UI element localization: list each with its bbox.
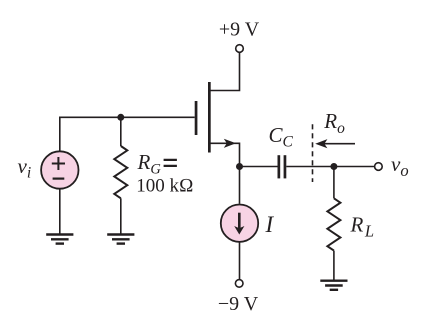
svg-text:Ro: Ro <box>323 109 345 137</box>
wire gate <box>60 117 195 151</box>
wire output to terminal <box>334 166 375 168</box>
svg-text:vi: vi <box>18 154 32 182</box>
ground (vi) <box>46 235 73 244</box>
source vi <box>41 151 78 188</box>
node output junction <box>330 163 337 170</box>
svg-text:−9 V: −9 V <box>218 293 259 315</box>
svg-text:CC: CC <box>269 123 294 151</box>
terminal +9V <box>236 45 244 53</box>
current source I <box>221 205 258 242</box>
svg-text:+9 V: +9 V <box>219 19 260 41</box>
wire output node to RL <box>333 167 335 199</box>
wire node to capacitor <box>240 166 278 168</box>
arrow Ro (pointing left) <box>320 143 355 145</box>
resistor RG <box>114 146 127 198</box>
ground (RG) <box>107 235 134 244</box>
wire RG top <box>120 117 122 146</box>
svg-text:100 kΩ: 100 kΩ <box>136 175 193 196</box>
wire drain to +9V <box>210 52 240 90</box>
current source arrow <box>238 213 241 229</box>
ground (RL) <box>320 281 347 290</box>
svg-text:RL: RL <box>350 213 375 241</box>
capacitor CC plates <box>278 155 281 178</box>
terminal vo <box>375 163 383 171</box>
wire current source to -9V <box>239 242 241 279</box>
vi plus sign <box>52 157 65 170</box>
svg-text:vo: vo <box>391 152 409 180</box>
wire vi to ground <box>59 189 61 234</box>
wire capacitor to output node <box>286 166 334 168</box>
terminal -9V <box>235 280 243 288</box>
transistor Q gate bar <box>195 101 198 135</box>
wire node to current source <box>239 167 241 204</box>
arrow of NMOS source <box>224 139 236 148</box>
svg-text:I: I <box>265 212 275 237</box>
node source junction <box>236 163 243 170</box>
resistor RL <box>327 198 340 250</box>
wire source with arrow <box>210 143 240 166</box>
transistor Q (NMOS) channel bar <box>208 82 211 153</box>
vi minus sign <box>53 178 65 180</box>
wire RG to ground <box>120 198 122 234</box>
wire RL to ground <box>333 251 335 280</box>
svg-text:RG: RG <box>137 150 162 178</box>
dashed boundary line <box>312 124 314 182</box>
node gate junction <box>117 114 124 121</box>
